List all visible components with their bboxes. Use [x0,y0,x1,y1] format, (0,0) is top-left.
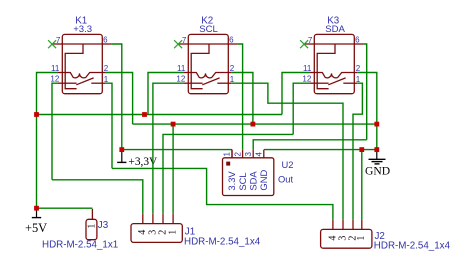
svg-text:6: 6 [103,35,108,44]
junction GND rail / J1 pin1 [171,122,176,127]
svg-text:SCL: SCL [199,24,218,35]
wire K3 pin12 down [293,83,310,134]
wire K1 pin2 to GND rail [105,73,133,125]
junction GND wire / J2 pin1 [359,147,364,152]
junction GND symbol [374,147,379,152]
wire +5V to J3 [37,207,93,209]
wire U2 pin4 to GND symbol [264,149,377,151]
svg-text:HDR-M-2.54_1x1: HDR-M-2.54_1x1 [42,239,118,250]
junction +3.3V [119,147,124,152]
wire K2 pin2 to GND rail [231,73,253,125]
svg-text:Out: Out [278,174,294,185]
svg-text:HDR-M-2.54_1x4: HDR-M-2.54_1x4 [184,236,261,247]
svg-text:+3,3V: +3,3V [128,156,158,168]
wire K3 pin6 to U2 pin3 [253,140,367,150]
wire K3 pin12 to J1 pin2 [163,134,293,214]
wire K1 pin11 to +5V rail [37,73,59,209]
wire K2 pin1 to J2 pin3 [231,83,343,220]
svg-text:U2: U2 [282,159,294,170]
wire GND to J2 pin1 [361,150,363,220]
svg-text:3: 3 [244,152,253,157]
relay K3 [302,15,363,93]
wire K1 pin12 down [52,83,58,180]
wire K1 pin1 to J2 pin4 [112,168,333,219]
GND symbol [365,150,390,178]
no-connect X on K3 pin 7 [300,40,308,48]
svg-text:GND: GND [258,170,269,191]
svg-text:4: 4 [255,152,264,157]
no-connect X on K1 pin 7 [48,40,56,48]
wire +5V rail horizontal [37,114,283,116]
wire +3.3V junction to U2 pin1 [122,149,232,151]
connector J2 [321,220,451,252]
svg-text:1: 1 [356,236,367,241]
svg-text:6: 6 [355,35,360,44]
junction GND rail / K3 pin2 [374,122,379,127]
connector J1 [131,214,261,247]
wire K1 pin12 to J1 pin4 [52,180,143,214]
svg-text:SCL: SCL [237,172,248,190]
svg-text:1: 1 [168,230,179,235]
wire K3 pin11 to +5V rail [282,73,310,115]
relay K2 [176,15,237,93]
svg-text:12: 12 [50,74,59,83]
wire K2 pin11 to +5V rail [148,73,184,115]
wire K3 pin2 to GND [357,73,377,150]
wire K2 pin12 to J1 pin3 [153,83,184,214]
connector J3 [42,209,118,251]
svg-text:12: 12 [302,74,311,83]
svg-text:+3.3: +3.3 [73,24,92,35]
wire K3 pin1 to J2 pin2 [353,83,362,220]
svg-text:6: 6 [229,35,234,44]
svg-text:1: 1 [223,152,232,157]
svg-text:J3: J3 [98,220,109,231]
svg-text:7: 7 [308,36,313,45]
junction GND rail / K2 pin2 [251,122,256,127]
svg-text:7: 7 [56,36,61,45]
wire K3 pin6 down [363,44,367,140]
svg-text:HDR-M-2.54_1x4: HDR-M-2.54_1x4 [374,241,451,252]
junction +5V symbol [34,206,39,211]
+5V supply symbol [25,208,47,235]
svg-text:1: 1 [86,224,97,229]
IC U2 Out [223,150,294,196]
wire K1 pin1 down [105,83,112,168]
svg-text:+5V: +5V [25,221,47,235]
wire K2 pin6 to U2 pin2 [237,44,243,150]
svg-text:2: 2 [233,152,242,157]
wire J1 pin1 to GND rail [172,124,174,214]
svg-text:7: 7 [182,36,187,45]
wire K1 pin6 to +3.3V junction [111,44,122,150]
junction +5V rail / K1 pin11 [34,112,39,117]
+3.3V supply symbol [117,150,158,168]
no-connect X on K2 pin 7 [174,40,182,48]
junction +5V rail mid [142,112,147,117]
svg-text:SDA: SDA [325,24,345,35]
svg-text:SDA: SDA [247,171,258,191]
stub U2 pin1 [231,150,233,158]
svg-text:12: 12 [176,74,185,83]
svg-text:3.3V: 3.3V [226,171,237,191]
relay K1 [50,15,111,93]
wire GND rail horizontal [133,123,377,125]
svg-text:GND: GND [365,165,390,178]
